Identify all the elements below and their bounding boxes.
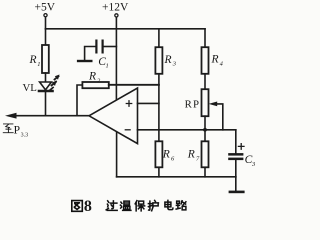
svg-text:+5V: +5V	[35, 1, 56, 13]
power terminal +5V	[44, 14, 47, 17]
svg-text:R: R	[187, 149, 195, 161]
svg-text:R: R	[29, 54, 37, 66]
label R6	[162, 149, 175, 163]
label R3	[164, 54, 177, 68]
power terminal +12V	[115, 14, 118, 17]
resistor R4	[202, 29, 209, 89]
护	[148, 200, 158, 211]
label R4	[211, 54, 224, 68]
svg-text:1: 1	[37, 61, 40, 68]
保	[135, 201, 145, 211]
svg-text:VL: VL	[23, 82, 37, 94]
svg-text:RP: RP	[185, 98, 201, 110]
wire inverting input row	[138, 129, 236, 131]
svg-text:8: 8	[84, 198, 92, 215]
svg-text:+12V: +12V	[102, 1, 129, 13]
wire noninverting input row	[138, 102, 159, 104]
label C1	[98, 56, 108, 70]
wire bottom rail	[117, 176, 236, 178]
电	[165, 200, 173, 209]
wire op-amp ground pin	[116, 133, 118, 177]
路	[176, 201, 186, 210]
svg-text:R: R	[164, 54, 172, 66]
label R1	[29, 54, 41, 68]
ground	[229, 177, 245, 193]
svg-text:3: 3	[172, 61, 177, 68]
LED VL	[39, 73, 53, 116]
label R2	[88, 71, 101, 85]
capacitor C1	[85, 40, 117, 60]
resistor R3	[155, 29, 162, 74]
LED light arrow 2	[50, 83, 56, 91]
svg-text:R: R	[162, 149, 170, 161]
svg-text:P: P	[14, 125, 20, 137]
label R7	[187, 149, 200, 163]
svg-text:3.3: 3.3	[21, 132, 29, 138]
图	[72, 201, 83, 212]
ground bar C1	[77, 60, 93, 62]
过	[106, 201, 117, 211]
wire R3 bottom column	[158, 74, 160, 130]
svg-text:6: 6	[171, 155, 175, 162]
wire top rail	[46, 28, 206, 30]
resistor R1	[42, 29, 49, 73]
potentiometer RP	[202, 89, 223, 130]
svg-text:4: 4	[220, 60, 224, 67]
svg-text:7: 7	[196, 155, 200, 162]
wire +5V stem	[45, 17, 47, 28]
junction node	[203, 128, 207, 132]
resistor R6	[155, 130, 162, 177]
温	[120, 201, 130, 210]
resistor R2	[77, 82, 159, 116]
LED light arrow 1	[53, 76, 59, 84]
svg-text:R: R	[88, 71, 96, 83]
resistor R7	[202, 130, 209, 177]
caption 图8 过温保护电路	[72, 198, 186, 215]
svg-text:3: 3	[251, 161, 256, 168]
wire +12V column	[115, 18, 117, 100]
output arrow to P3.3	[5, 113, 17, 119]
svg-text:1: 1	[106, 63, 109, 70]
op-amp U1	[89, 88, 138, 144]
svg-text:R: R	[211, 54, 219, 66]
capacitor C3	[228, 130, 244, 177]
label 至P3.3	[3, 124, 28, 138]
wire output row	[16, 115, 90, 117]
label C3	[245, 154, 256, 168]
